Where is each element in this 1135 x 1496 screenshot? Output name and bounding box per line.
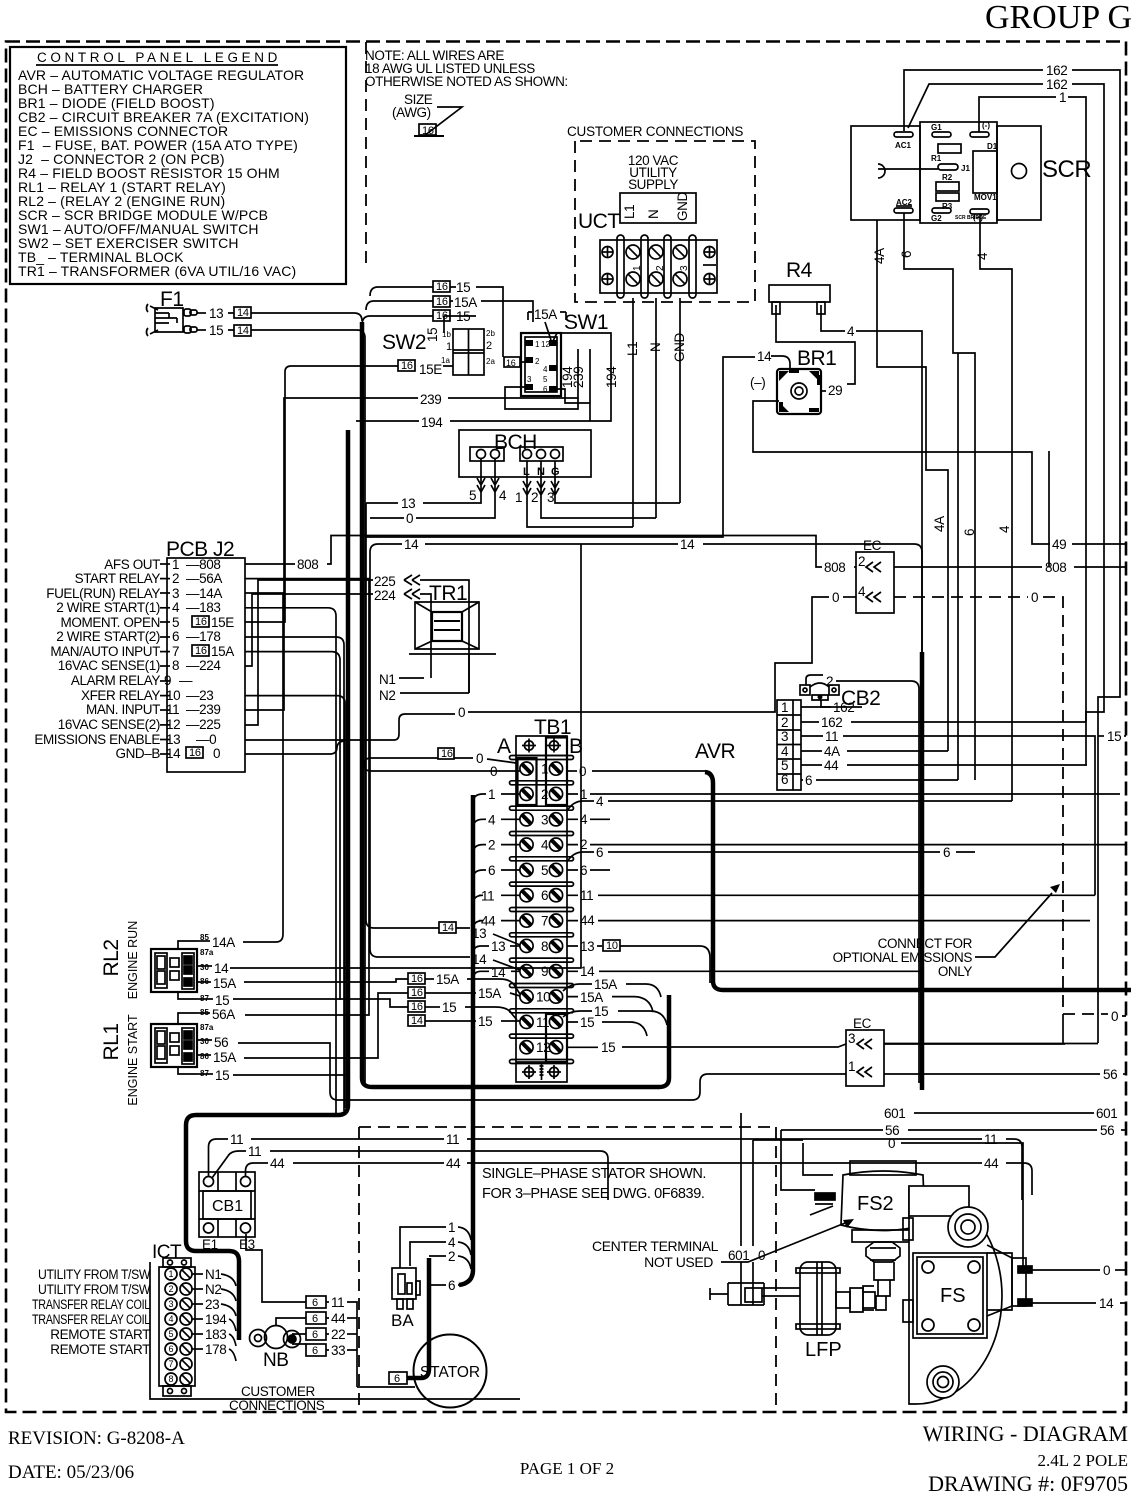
svg-text:GND: GND	[675, 192, 690, 221]
svg-text:—178: —178	[186, 629, 220, 644]
generator STATOR	[414, 1335, 487, 1408]
svg-text:3: 3	[527, 375, 532, 384]
svg-text:XFER RELAY: XFER RELAY	[81, 688, 160, 703]
svg-text:ENGINE RUN: ENGINE RUN	[126, 921, 140, 999]
wire 56 horizontal	[781, 1129, 883, 1131]
svg-text:11: 11	[984, 1132, 997, 1147]
svg-text:3: 3	[848, 1031, 855, 1046]
svg-text:TRANSFER RELAY COIL: TRANSFER RELAY COIL	[32, 1297, 151, 1312]
TB1 row5 left 6	[473, 870, 486, 879]
svg-text:3: 3	[172, 586, 179, 601]
wire 162 from AC1	[904, 70, 1043, 131]
svg-text:BR1: BR1	[797, 347, 836, 370]
wire GND down	[679, 298, 681, 503]
wire 183 PCB4	[245, 608, 336, 1113]
svg-text:6: 6	[312, 1329, 318, 1341]
svg-text:87a: 87a	[200, 1023, 214, 1032]
svg-text:56: 56	[1103, 1067, 1117, 1082]
note text	[365, 48, 568, 137]
svg-text:15A: 15A	[436, 972, 459, 987]
svg-text:—224: —224	[186, 658, 221, 673]
wire 56 EC1 chain	[238, 1043, 846, 1100]
wire 0 dashed to emissions	[894, 596, 1028, 598]
svg-text:—0: —0	[196, 732, 216, 747]
svg-text:(+): (+)	[973, 213, 983, 222]
svg-text:R2: R2	[942, 173, 953, 182]
svg-text:MOV1: MOV1	[974, 193, 997, 202]
svg-text:6: 6	[541, 888, 548, 903]
svg-text:808: 808	[297, 557, 318, 572]
svg-text:N: N	[648, 343, 663, 352]
unused center terminal stub	[710, 1283, 764, 1305]
svg-text:3: 3	[541, 812, 548, 827]
svg-text:RL2: RL2	[100, 939, 123, 976]
svg-text:15A: 15A	[580, 990, 603, 1005]
TB1 wire 0 upper	[438, 748, 454, 759]
varistor MOV1	[973, 151, 997, 193]
svg-text:MAN. INPUT: MAN. INPUT	[86, 702, 160, 717]
TB1 row7 left 44	[473, 921, 483, 930]
svg-text:SW1: SW1	[564, 311, 608, 334]
resistor R3	[936, 193, 959, 201]
svg-text:23: 23	[205, 1297, 219, 1312]
svg-text:2: 2	[781, 715, 788, 730]
svg-text:AFS OUT: AFS OUT	[104, 557, 160, 572]
svg-text:5: 5	[168, 1329, 173, 1339]
wire 11 row3	[801, 735, 823, 737]
svg-text:FOR 3–PHASE SEE DWG. 0F6839.: FOR 3–PHASE SEE DWG. 0F6839.	[482, 1186, 705, 1202]
svg-text:2: 2	[858, 554, 865, 569]
BCH pin arrows	[477, 459, 559, 500]
svg-text:6: 6	[580, 863, 587, 878]
wire 1 from (-)	[979, 97, 1056, 132]
wire L1 down	[632, 298, 634, 527]
svg-text:16: 16	[436, 281, 448, 293]
wire 49 from BR1	[753, 401, 1050, 544]
svg-text:1a: 1a	[441, 356, 450, 365]
wire 2	[429, 1255, 446, 1257]
svg-text:2: 2	[655, 265, 666, 271]
svg-text:ALARM RELAY: ALARM RELAY	[71, 673, 161, 688]
svg-text:0: 0	[476, 751, 483, 766]
TB1 row8 wires 13	[439, 922, 456, 933]
customer connections utility supply	[567, 124, 755, 527]
svg-text:16: 16	[189, 747, 201, 759]
svg-text:9: 9	[164, 673, 171, 688]
svg-text:11: 11	[481, 888, 494, 903]
wire 44 row5	[801, 764, 822, 766]
svg-text:15A: 15A	[213, 976, 236, 991]
svg-text:3: 3	[781, 729, 788, 744]
svg-text:NOT USED: NOT USED	[644, 1254, 713, 1270]
svg-text:11: 11	[446, 1132, 459, 1147]
svg-text:13: 13	[580, 939, 594, 954]
svg-text:G1: G1	[931, 123, 942, 132]
svg-text:194: 194	[604, 366, 619, 388]
svg-text:2b: 2b	[486, 329, 495, 338]
svg-text:6: 6	[312, 1297, 318, 1309]
svg-text:16: 16	[436, 296, 448, 308]
svg-text:PAGE 1 OF 2: PAGE 1 OF 2	[520, 1459, 614, 1478]
UCT terminal block	[600, 240, 717, 293]
TB1 row2 left 1	[473, 794, 486, 803]
svg-text:15A: 15A	[534, 307, 557, 322]
svg-text:N2: N2	[205, 1282, 221, 1297]
svg-text:WIRING - DIAGRAM: WIRING - DIAGRAM	[923, 1421, 1128, 1446]
svg-text:FUEL(RUN) RELAY: FUEL(RUN) RELAY	[46, 586, 160, 601]
TB1 row11 wires 15	[408, 1001, 425, 1012]
svg-text:3: 3	[679, 265, 690, 271]
svg-text:1: 1	[580, 787, 587, 802]
wire R4 left pin to 29	[776, 314, 855, 384]
svg-text:44: 44	[824, 758, 839, 773]
svg-text:44: 44	[446, 1156, 461, 1171]
svg-text:0: 0	[832, 590, 839, 605]
wire 15 TB1-12 to EC3	[567, 1046, 598, 1048]
svg-text:2: 2	[172, 571, 179, 586]
wire 11 from CB1 E1	[209, 1139, 229, 1177]
svg-text:STATOR: STATOR	[420, 1364, 480, 1381]
svg-text:1: 1	[515, 490, 522, 505]
relay RL2	[100, 544, 581, 1106]
svg-text:REMOTE START: REMOTE START	[50, 1342, 150, 1357]
svg-text:11: 11	[536, 1015, 549, 1030]
svg-text:15: 15	[215, 1068, 229, 1083]
svg-text:—239: —239	[186, 702, 220, 717]
wire 15A PCB7	[245, 652, 340, 1000]
ICT row 3	[165, 1298, 192, 1310]
svg-text:14: 14	[680, 537, 695, 552]
svg-text:15: 15	[425, 328, 440, 342]
TB1 row3 left 4	[473, 819, 486, 828]
svg-text:11: 11	[248, 1144, 261, 1159]
svg-text:56A: 56A	[212, 1007, 235, 1022]
jumper J1	[938, 164, 958, 170]
svg-text:4: 4	[541, 838, 549, 853]
svg-text:13: 13	[491, 939, 505, 954]
svg-text:30: 30	[200, 1037, 209, 1046]
svg-text:4: 4	[847, 324, 855, 339]
svg-text:0: 0	[213, 746, 220, 761]
svg-text:1: 1	[632, 265, 643, 271]
svg-text:6: 6	[899, 251, 914, 258]
wire 15A row	[433, 296, 450, 307]
bold bus E tb1 row1	[705, 772, 1131, 990]
wire 15 right edge	[1098, 735, 1104, 737]
svg-text:D1: D1	[987, 142, 998, 151]
svg-text:MOMENT. OPEN: MOMENT. OPEN	[61, 615, 160, 630]
svg-text:14: 14	[237, 325, 249, 337]
svg-text:11: 11	[825, 729, 838, 744]
svg-text:10: 10	[536, 990, 550, 1005]
svg-text:AVR: AVR	[695, 740, 735, 763]
svg-text:6: 6	[781, 772, 788, 787]
svg-text:16VAC SENSE(2): 16VAC SENSE(2)	[58, 717, 160, 732]
svg-text:5: 5	[541, 863, 548, 878]
svg-text:6: 6	[448, 1278, 455, 1293]
wire 15 RL1-87	[197, 1073, 213, 1075]
svg-text:GROUP G: GROUP G	[985, 0, 1132, 36]
wire 162 CB2 to EC1	[821, 700, 831, 707]
wire 11 to stator	[246, 1234, 306, 1302]
svg-text:—808: —808	[186, 557, 220, 572]
svg-text:OPTIONAL EMISSIONS: OPTIONAL EMISSIONS	[833, 950, 973, 965]
svg-text:225: 225	[374, 574, 395, 589]
wire 162 row2	[801, 721, 819, 723]
svg-text:14: 14	[491, 965, 506, 980]
bold wire BA to stator	[407, 1258, 429, 1378]
svg-text:11: 11	[580, 888, 593, 903]
wire 14 from FS	[1032, 1302, 1096, 1304]
svg-text:2: 2	[488, 838, 495, 853]
BCH L N G wires	[527, 500, 633, 527]
svg-text:6: 6	[596, 845, 603, 860]
svg-text:—56A: —56A	[186, 571, 222, 586]
connector J2 on PCB	[34, 538, 345, 1113]
svg-text:UTILITY FROM T/SW: UTILITY FROM T/SW	[38, 1282, 151, 1297]
ICT row 8	[165, 1373, 192, 1385]
battery adapter BA	[392, 1268, 420, 1309]
solid enclosure line	[150, 1262, 520, 1399]
wire 15A RL1-86	[197, 1054, 211, 1056]
wire 0 from FS	[1032, 1269, 1100, 1271]
wire 11 from CB1 E1 diag	[212, 1151, 246, 1178]
wire 15 row b	[433, 310, 450, 321]
svg-text:601: 601	[728, 1248, 749, 1263]
wire 15 RL2-87	[197, 998, 213, 1000]
wire 4 from R4 right pin	[821, 314, 845, 331]
TB1 row4 left 2	[473, 845, 486, 854]
svg-text:ENGINE START: ENGINE START	[126, 1014, 140, 1106]
svg-text:15: 15	[209, 323, 223, 338]
fuse F1	[146, 280, 619, 1085]
svg-text:6: 6	[172, 629, 179, 644]
svg-text:5: 5	[469, 488, 476, 503]
ICT row 7	[165, 1358, 192, 1370]
resistor R4	[750, 259, 1126, 652]
svg-text:UCT: UCT	[578, 210, 620, 233]
svg-text:N1: N1	[205, 1267, 221, 1282]
circuit breaker CB2	[238, 353, 1126, 1100]
svg-text:2 WIRE START(1): 2 WIRE START(1)	[56, 600, 160, 615]
svg-text:—225: —225	[186, 717, 220, 732]
svg-text:4: 4	[448, 1235, 456, 1250]
svg-text:LFP: LFP	[805, 1339, 842, 1361]
TB1 row5 upper right 6	[567, 852, 594, 862]
svg-text:3: 3	[547, 490, 554, 505]
wire 4A row4	[801, 750, 822, 752]
svg-text:6: 6	[543, 385, 548, 394]
wire 6	[429, 1284, 446, 1286]
svg-text:SW2: SW2	[382, 331, 426, 354]
svg-text:CUSTOMER: CUSTOMER	[241, 1384, 315, 1399]
TB1 screws and numbers	[520, 762, 563, 1054]
svg-text:14: 14	[237, 307, 249, 319]
svg-text:A: A	[497, 735, 511, 758]
svg-text:—183: —183	[186, 600, 220, 615]
wire 6 row6	[801, 779, 803, 781]
svg-text:13: 13	[209, 306, 223, 321]
terminal (+)	[970, 209, 989, 214]
svg-text:OTHERWISE NOTED AS SHOWN:: OTHERWISE NOTED AS SHOWN:	[365, 74, 568, 89]
nut/bolt NB	[250, 1326, 301, 1349]
wire 14 long line BR1	[365, 357, 755, 537]
svg-text:BA: BA	[391, 1311, 414, 1330]
svg-text:8: 8	[541, 939, 548, 954]
svg-text:4: 4	[488, 812, 496, 827]
svg-text:2: 2	[168, 1284, 173, 1294]
svg-text:10: 10	[166, 688, 180, 703]
TB1 top plate	[516, 736, 567, 756]
svg-text:G2: G2	[931, 214, 942, 223]
svg-text:0: 0	[579, 764, 586, 779]
svg-text:16VAC SENSE(1): 16VAC SENSE(1)	[58, 658, 160, 673]
svg-text:7: 7	[172, 644, 179, 659]
wire 162 from G1	[908, 84, 1043, 128]
TB1 B-block outline rows1-2	[546, 738, 567, 806]
svg-text:CONNECT FOR: CONNECT FOR	[878, 936, 973, 951]
svg-text:15A: 15A	[478, 986, 501, 1001]
TB1 body columns	[515, 756, 517, 1063]
svg-text:194: 194	[421, 415, 443, 430]
TB1 row1 right 0	[567, 770, 577, 772]
svg-text:162: 162	[1046, 63, 1067, 78]
wire 808 chain	[245, 563, 295, 565]
svg-text:9: 9	[541, 964, 548, 979]
wire 44 to stator	[276, 1318, 306, 1326]
svg-text:6: 6	[312, 1345, 318, 1357]
svg-text:CENTER TERMINAL: CENTER TERMINAL	[592, 1238, 719, 1254]
bold bus C stator lead	[459, 795, 473, 1285]
wire 4 from (+)	[980, 214, 1012, 801]
svg-text:16: 16	[411, 987, 423, 999]
svg-text:56: 56	[1100, 1123, 1114, 1138]
svg-text:5: 5	[781, 758, 788, 773]
wire 14 long labeled	[370, 544, 402, 552]
svg-text:L1: L1	[625, 342, 640, 356]
svg-text:239: 239	[420, 392, 441, 407]
svg-text:6: 6	[943, 845, 950, 860]
svg-text:1: 1	[446, 341, 452, 353]
wire 23 PCB10	[245, 696, 345, 1108]
bottom titles	[8, 1421, 1128, 1496]
svg-text:162: 162	[821, 715, 842, 730]
wire 14A RL2-85 to PCB3	[197, 940, 210, 942]
wire 33 to stator	[306, 1344, 326, 1356]
svg-text:(AWG): (AWG)	[392, 105, 431, 120]
wire 6 from AC2	[904, 213, 975, 780]
bold bus F field	[920, 652, 925, 1090]
svg-text:11: 11	[230, 1132, 243, 1147]
svg-text:2: 2	[448, 1249, 455, 1264]
bold bus A battery negative	[186, 430, 348, 1340]
svg-text:GND–B: GND–B	[115, 746, 160, 761]
svg-text:—23: —23	[186, 688, 213, 703]
svg-text:(-): (-)	[982, 121, 990, 130]
svg-text:SCR: SCR	[1042, 156, 1091, 183]
svg-text:4: 4	[168, 1314, 173, 1324]
FS2 body	[810, 1161, 925, 1242]
svg-text:14: 14	[166, 746, 181, 761]
svg-text:14: 14	[404, 537, 419, 552]
svg-text:2 WIRE START(2): 2 WIRE START(2)	[56, 629, 160, 644]
svg-text:0: 0	[1111, 1009, 1118, 1024]
wire 22 to stator	[292, 1334, 306, 1344]
svg-text:TRANSFER RELAY COIL: TRANSFER RELAY COIL	[32, 1312, 151, 1327]
svg-text:0: 0	[458, 705, 465, 720]
svg-text:2.4L 2 POLE: 2.4L 2 POLE	[1037, 1451, 1128, 1470]
wire 15 from F1	[197, 329, 206, 331]
svg-text:15: 15	[478, 1014, 492, 1029]
svg-text:16: 16	[195, 616, 207, 628]
svg-text:15: 15	[601, 1040, 615, 1055]
wire 15E	[398, 360, 415, 371]
TB1 A-block outline	[518, 758, 537, 805]
ICT row 2	[165, 1283, 192, 1295]
wire 0 vertical	[752, 1140, 754, 1283]
svg-text:2: 2	[580, 837, 587, 852]
svg-text:14: 14	[214, 961, 229, 976]
circuit breaker CB1	[199, 1172, 255, 1237]
svg-text:1: 1	[781, 700, 788, 715]
svg-text:N2: N2	[379, 688, 395, 703]
wire 178 PCB6	[245, 637, 344, 1111]
svg-text:1: 1	[488, 787, 495, 802]
svg-text:16: 16	[441, 748, 453, 760]
TB1 row3 upper right 4	[567, 801, 594, 811]
svg-text:14: 14	[442, 922, 454, 934]
svg-text:15: 15	[456, 280, 470, 295]
wire 0 EC4 chain	[245, 714, 455, 740]
svg-text:15A: 15A	[213, 1050, 236, 1065]
svg-text:6: 6	[168, 1344, 173, 1354]
svg-text:601: 601	[884, 1106, 905, 1121]
svg-text:UTILITY FROM T/SW: UTILITY FROM T/SW	[38, 1267, 151, 1282]
svg-text:13: 13	[472, 926, 486, 941]
svg-text:EC: EC	[853, 1016, 872, 1031]
svg-text:4: 4	[580, 812, 588, 827]
svg-text:REMOTE START: REMOTE START	[50, 1327, 150, 1342]
svg-text:44: 44	[984, 1156, 999, 1171]
svg-text:1b: 1b	[442, 330, 451, 339]
terminal G2	[932, 208, 951, 213]
TB1 separator bars	[510, 756, 574, 1064]
svg-text:4A: 4A	[872, 248, 887, 264]
ICT row 4	[165, 1313, 192, 1325]
fuel filter LFP	[745, 1262, 875, 1335]
svg-text:7: 7	[541, 914, 548, 929]
svg-text:R4: R4	[786, 259, 813, 282]
svg-text:56: 56	[214, 1035, 228, 1050]
svg-text:—: —	[179, 673, 193, 688]
svg-text:12: 12	[166, 717, 180, 732]
svg-text:194: 194	[205, 1312, 227, 1327]
svg-text:2a: 2a	[486, 357, 495, 366]
svg-text:14: 14	[580, 964, 595, 979]
transformer TR1	[245, 574, 496, 725]
svg-text:4A: 4A	[932, 516, 947, 532]
wire 1	[400, 1227, 446, 1268]
svg-text:15: 15	[580, 1015, 594, 1030]
svg-text:16: 16	[411, 1001, 423, 1013]
svg-text:RL1: RL1	[100, 1023, 123, 1060]
svg-text:EMISSIONS ENABLE: EMISSIONS ENABLE	[34, 732, 160, 747]
svg-text:6: 6	[312, 1313, 318, 1325]
note connect for optional emissions only	[833, 936, 973, 979]
legend box CONTROL PANEL LEGEND	[10, 47, 346, 284]
svg-text:22: 22	[331, 1327, 345, 1342]
svg-text:29: 29	[828, 383, 842, 398]
